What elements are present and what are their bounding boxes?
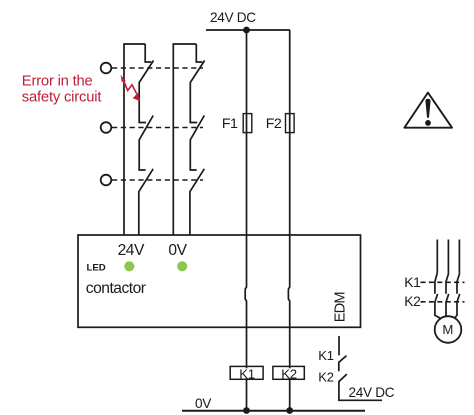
LED indicator green 24V — [124, 261, 134, 271]
NC contact chain channel 2 (three forced-guided contacts) — [190, 44, 205, 235]
dashed actuator line row 1 — [112, 67, 203, 69]
svg-text:24V DC: 24V DC — [210, 10, 256, 25]
NO contact K2 (feedback) — [339, 374, 347, 400]
wire: 0V bottom bus — [182, 410, 365, 412]
dashed actuator line row 2 — [112, 127, 203, 129]
terminal circle 3 — [101, 175, 112, 186]
node: bottom junction K2 branch — [286, 407, 293, 414]
contactor box — [78, 235, 361, 327]
svg-text:K2: K2 — [404, 294, 420, 309]
fuse F2 — [286, 114, 295, 133]
wire: motor phase L1 with K1/K2 NO contacts — [435, 240, 443, 320]
wire: F2 branch vertical (24V to 0V through K2 coil) — [288, 30, 289, 411]
wire: motor phase L2 with K1/K2 NO contacts — [446, 240, 449, 317]
dashed link K1 contact row — [421, 281, 465, 283]
wire: F1 branch vertical (24V to 0V through K1 coil) — [245, 30, 246, 411]
svg-text:F2: F2 — [266, 116, 282, 132]
svg-text:0V: 0V — [195, 396, 212, 411]
NO contact K1 (feedback) — [339, 356, 347, 372]
svg-text:K1: K1 — [404, 275, 420, 290]
NC contact chain channel 1 (three forced-guided contacts) — [139, 44, 154, 235]
svg-text:24V DC: 24V DC — [349, 385, 395, 400]
svg-text:EDM: EDM — [332, 292, 348, 322]
svg-text:M: M — [442, 322, 453, 337]
svg-text:Error in the: Error in the — [22, 73, 93, 89]
node: bottom junction K1 branch — [243, 407, 250, 414]
coil K2 box — [273, 366, 304, 379]
fuse F1 — [243, 114, 252, 133]
wire: motor phase L3 with K1/K2 NO contacts — [454, 240, 460, 320]
terminal circle 1 (emergency stop channel) — [101, 63, 112, 74]
wire: EDM feedback from contactor — [338, 336, 340, 355]
svg-text:K1: K1 — [239, 366, 255, 381]
terminal circle 2 — [101, 122, 112, 133]
wire: 24V DC top bus — [206, 29, 290, 31]
svg-text:contactor: contactor — [86, 280, 146, 297]
warning exclamation mark — [425, 99, 430, 118]
svg-text:K2: K2 — [281, 366, 297, 381]
wire: safety channel 2 left conductor — [173, 44, 196, 235]
LED indicator green 0V — [177, 261, 187, 271]
svg-text:0V: 0V — [168, 242, 187, 259]
node: top junction on F1 branch — [243, 27, 250, 34]
coil K1 box — [230, 366, 263, 379]
svg-text:safety circuit: safety circuit — [22, 90, 102, 106]
wire: safety channel 1 left conductor — [124, 44, 145, 235]
svg-text:LED: LED — [87, 263, 106, 274]
warning triangle — [404, 93, 452, 128]
wire: 24V DC stub under feedback chain — [338, 399, 382, 401]
svg-text:F1: F1 — [222, 116, 238, 132]
motor M — [435, 316, 462, 343]
dashed actuator line row 3 — [112, 179, 203, 181]
svg-text:24V: 24V — [118, 242, 145, 259]
red fault arrow (zigzag) — [123, 78, 137, 94]
dashed link K2 contact row — [421, 301, 465, 303]
svg-text:K1: K1 — [318, 348, 334, 363]
svg-text:K2: K2 — [318, 370, 334, 385]
